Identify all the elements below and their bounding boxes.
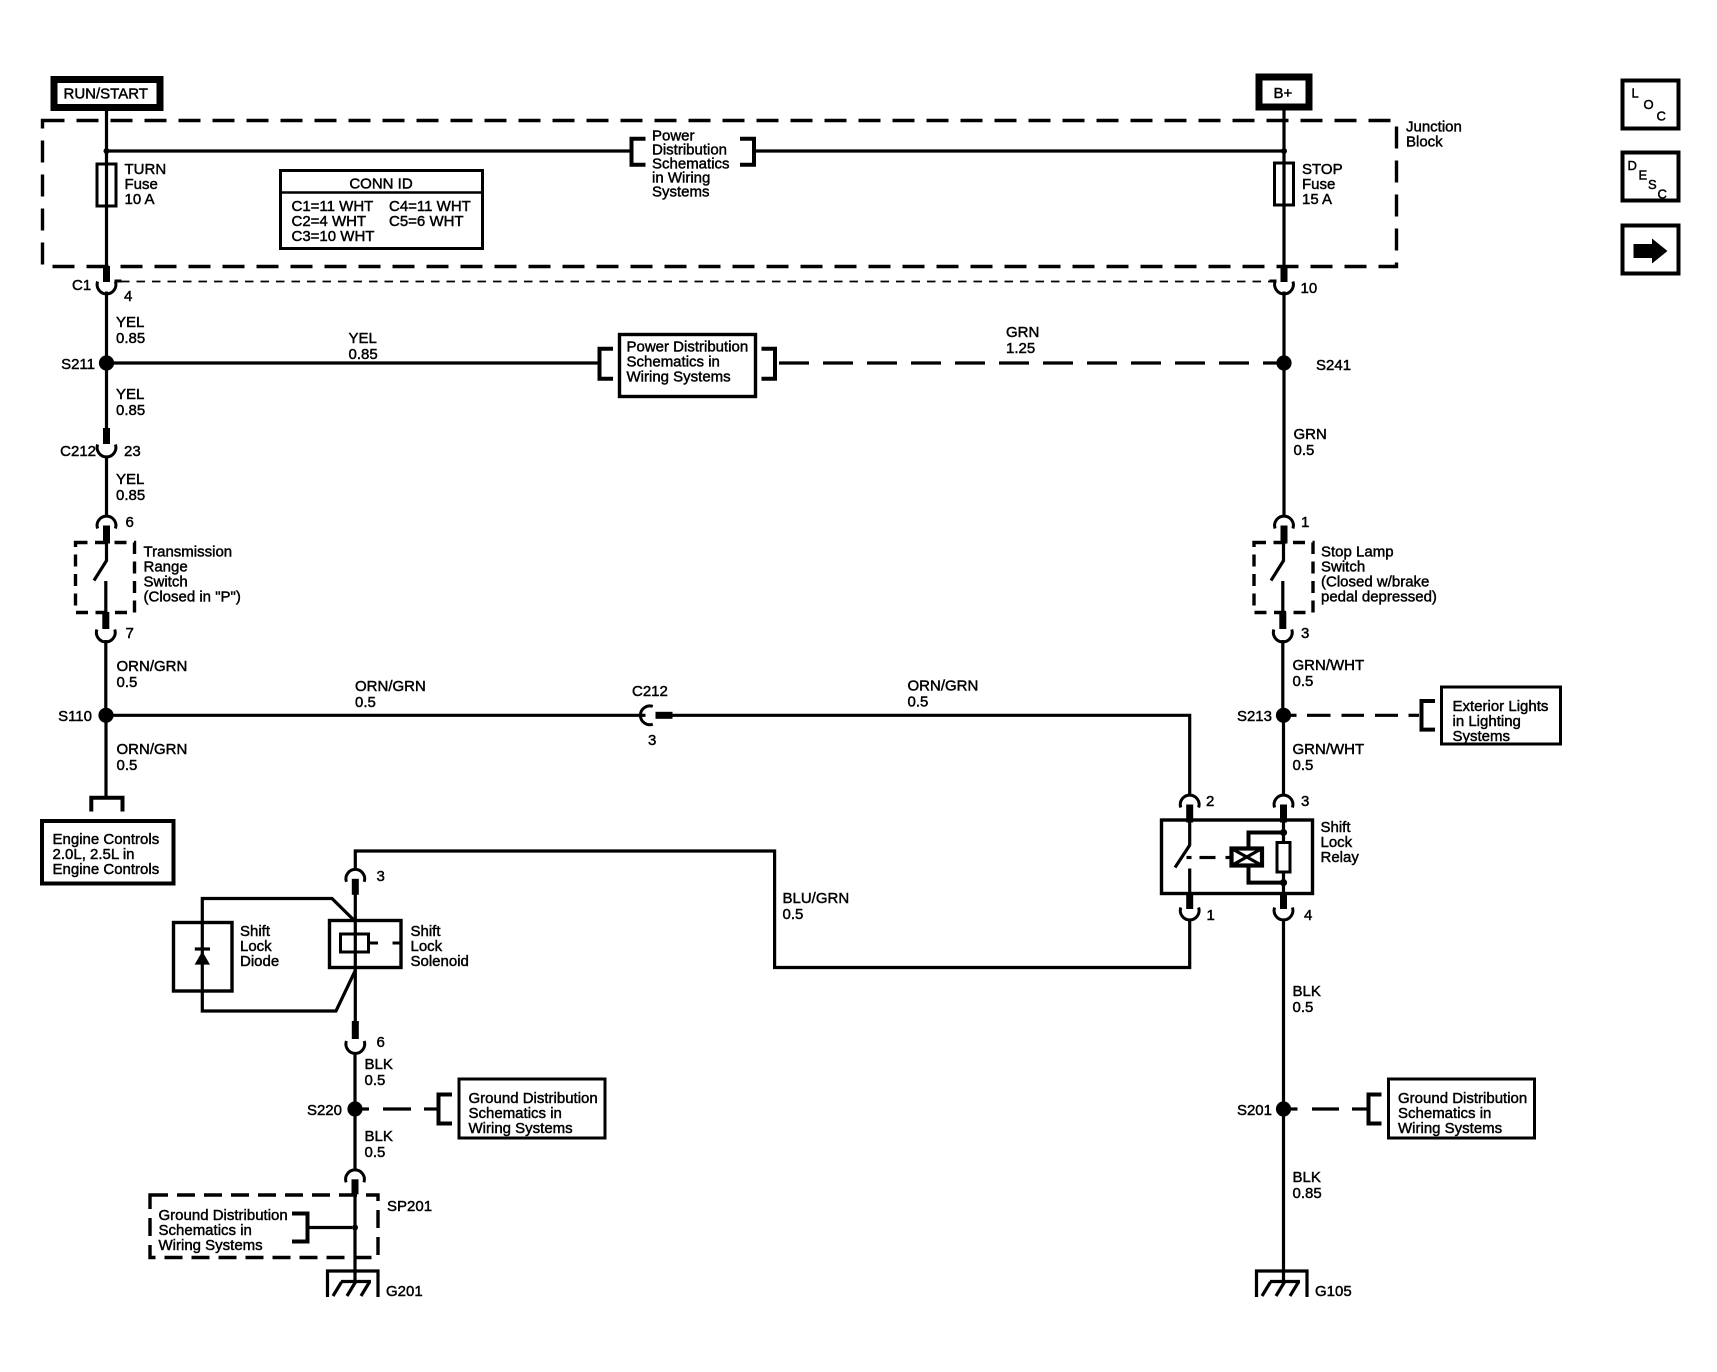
shift lock solenoid coil <box>341 934 402 952</box>
svg-text:4: 4 <box>1304 907 1312 924</box>
referenced box: Ground Distribution Schematics in Wiring Systems (left) <box>459 1079 605 1138</box>
dashed link: S213 to exterior lights bracket <box>1290 714 1420 717</box>
svg-text:6: 6 <box>377 1034 385 1051</box>
svg-text:BLK: BLK <box>1293 983 1321 1000</box>
svg-text:3: 3 <box>377 868 385 885</box>
relay coil (box with X) <box>1232 849 1263 866</box>
wire GRN dashed: bracket to S241 <box>779 361 1284 364</box>
connector C212 pin 3 (horizontal) <box>632 683 673 749</box>
svg-text:Systems: Systems <box>652 184 710 201</box>
svg-text:C: C <box>1658 187 1667 202</box>
splice node S241 <box>1276 355 1351 374</box>
svg-text:E: E <box>1639 168 1648 183</box>
label BLU/GRN 0.5 <box>783 890 850 923</box>
node: bus tap right <box>1281 148 1287 154</box>
svg-text:Wiring Systems: Wiring Systems <box>1398 1120 1502 1137</box>
CONN ID table <box>281 171 483 249</box>
svg-text:0.5: 0.5 <box>783 906 804 923</box>
svg-text:Block: Block <box>1406 134 1443 151</box>
label YEL 0.85 (below S211) <box>116 386 145 419</box>
connector 2 (relay top left) <box>1180 793 1214 823</box>
splice label: Ground Distribution Schematics in Wiring Systems (SP201) <box>159 1207 288 1254</box>
svg-text:YEL: YEL <box>116 471 144 488</box>
label YEL 0.85 (mid wire) <box>349 330 378 363</box>
svg-text:B+: B+ <box>1274 85 1293 102</box>
svg-text:(Closed in "P"): (Closed in "P") <box>144 589 241 606</box>
svg-text:Engine Controls: Engine Controls <box>53 861 160 878</box>
wire: SP201 to ground G201 <box>353 1194 356 1283</box>
svg-text:0.5: 0.5 <box>1293 673 1314 690</box>
fuse STOP label <box>1302 161 1343 208</box>
svg-text:GRN: GRN <box>1006 324 1039 341</box>
connector 3 (stop lamp switch bottom) <box>1273 612 1309 642</box>
svg-text:BLK: BLK <box>365 1128 393 1145</box>
svg-text:23: 23 <box>124 443 141 460</box>
dashed link: S220 to ground distribution bracket <box>361 1107 437 1110</box>
relay coil bottom lead <box>1249 866 1284 883</box>
shift lock diode loop wire top <box>202 899 355 1012</box>
off-page bracket (exterior lights) <box>1422 701 1436 730</box>
svg-text:0.85: 0.85 <box>116 402 145 419</box>
label BLK 0.5 (below S220) <box>365 1128 393 1161</box>
svg-text:0.85: 0.85 <box>116 487 145 504</box>
stop lamp switch label <box>1321 544 1437 606</box>
wire ORN/GRN: S110 to C212 cup <box>106 714 646 717</box>
svg-text:pedal depressed): pedal depressed) <box>1321 589 1437 606</box>
svg-text:S201: S201 <box>1237 1102 1272 1119</box>
wire BLK: S201 to ground G105 <box>1282 1109 1285 1283</box>
splice node S110 <box>58 708 114 725</box>
svg-text:Systems: Systems <box>1453 728 1511 745</box>
junction block dashed outline <box>43 121 1397 267</box>
wire: B+ down through STOP fuse to connector 10 <box>1282 106 1285 268</box>
off-page bracket (ground distribution left) <box>439 1095 453 1124</box>
svg-text:6: 6 <box>126 514 134 531</box>
svg-text:0.5: 0.5 <box>1293 999 1314 1016</box>
svg-text:G201: G201 <box>386 1283 423 1300</box>
svg-text:1.25: 1.25 <box>1006 340 1035 357</box>
wire ORN/GRN: C212 to relay pin 2 <box>673 715 1190 795</box>
label YEL 0.85 (third) <box>116 471 145 504</box>
label BLK 0.85 <box>1293 1169 1322 1202</box>
svg-text:2: 2 <box>1206 793 1214 810</box>
svg-text:Diode: Diode <box>240 953 279 970</box>
shift lock relay label <box>1321 819 1360 866</box>
svg-text:S110: S110 <box>58 708 92 725</box>
node: coil/resistor top <box>1280 829 1287 836</box>
svg-text:BLU/GRN: BLU/GRN <box>783 890 850 907</box>
label GRN 1.25 <box>1006 324 1039 357</box>
svg-text:1: 1 <box>1301 514 1309 531</box>
wire BLU/GRN: relay pin1 to shift lock solenoid <box>355 851 1189 968</box>
wire GRN: S241 to stop lamp switch pin 1 <box>1282 363 1285 516</box>
legend box LOC <box>1623 81 1679 129</box>
svg-text:0.5: 0.5 <box>1293 757 1314 774</box>
connector 1 (relay bottom left) <box>1180 892 1215 924</box>
connector 6 (TRS top) <box>97 514 134 544</box>
wire GRN/WHT: stop lamp switch to S213 <box>1281 640 1284 715</box>
svg-text:Wiring Systems: Wiring Systems <box>627 369 731 386</box>
relay switch contacts <box>1175 821 1190 893</box>
dashed link: S201 to ground distribution bracket <box>1289 1107 1367 1110</box>
connector 6 (solenoid bottom) <box>346 1021 385 1053</box>
svg-text:C1: C1 <box>72 277 91 294</box>
transmission range switch dashed box <box>76 543 135 613</box>
junction block label <box>1406 119 1462 151</box>
off-page bracket (ground distribution right) <box>1369 1095 1382 1124</box>
svg-text:0.5: 0.5 <box>1294 442 1315 459</box>
connector 4 (relay bottom right) <box>1274 892 1312 924</box>
svg-text:10: 10 <box>1301 280 1318 297</box>
wire ORN/GRN: TRS to S110 <box>104 640 107 715</box>
SP201 bracket link <box>292 1212 358 1244</box>
connector line C1 (thin dashed) <box>121 281 1271 283</box>
relay resistor <box>1277 843 1290 873</box>
label BLK 0.5 (above S220) <box>365 1056 393 1089</box>
ground G105 <box>1257 1271 1352 1300</box>
label GRN 0.5 <box>1294 426 1327 459</box>
svg-text:CONN ID: CONN ID <box>349 176 413 193</box>
wire YEL: C212 to TRS pin 6 <box>105 456 108 516</box>
wire BLK: solenoid to connector 6 <box>354 967 357 1022</box>
connector 3 (relay top right) <box>1274 793 1309 823</box>
off-page bracket right (power distribution top) <box>740 139 754 165</box>
shift lock diode symbol <box>195 949 210 965</box>
wire BLK: relay pin4 to S201 <box>1282 920 1285 1109</box>
label YEL 0.85 (upper) <box>116 314 145 347</box>
wire BLK: connector 6 to S220 <box>353 1052 356 1109</box>
legend box DESC <box>1623 153 1679 202</box>
svg-text:Solenoid: Solenoid <box>411 953 469 970</box>
svg-text:0.5: 0.5 <box>117 757 138 774</box>
wire: top feed bus right segment <box>754 149 1284 152</box>
svg-text:7: 7 <box>126 625 134 642</box>
connector 7 (TRS bottom) <box>96 612 133 642</box>
referenced box: Ground Distribution Schematics in Wiring Systems (right) <box>1389 1079 1535 1138</box>
svg-text:C212: C212 <box>632 683 668 700</box>
svg-text:1: 1 <box>1207 907 1215 924</box>
shift lock solenoid label <box>411 923 469 970</box>
stop lamp switch dashed box <box>1254 543 1313 613</box>
power source tab B+ <box>1259 77 1309 107</box>
connector 1 (stop lamp switch top) <box>1275 514 1310 544</box>
wire YEL: S211 to C212 <box>105 363 108 430</box>
svg-text:S: S <box>1648 177 1657 192</box>
svg-text:0.5: 0.5 <box>365 1144 386 1161</box>
connector (above SP201) <box>346 1170 365 1194</box>
connector 3 (solenoid top) <box>346 868 385 895</box>
svg-text:RUN/START: RUN/START <box>64 86 148 103</box>
svg-text:YEL: YEL <box>349 330 377 347</box>
svg-text:10 A: 10 A <box>125 191 155 208</box>
wire: top feed bus left segment <box>107 149 631 152</box>
svg-text:YEL: YEL <box>116 314 144 331</box>
svg-text:S211: S211 <box>61 356 95 373</box>
relay coil top lead <box>1249 833 1284 849</box>
svg-text:SP201: SP201 <box>387 1198 432 1215</box>
svg-text:GRN/WHT: GRN/WHT <box>1293 657 1365 674</box>
wire: RUN/START down through TURN fuse to connector C1 <box>105 111 108 268</box>
svg-text:ORN/GRN: ORN/GRN <box>355 678 426 695</box>
power source tab RUN/START <box>54 80 160 108</box>
wire ORN/GRN: S110 down to engine controls <box>104 715 107 797</box>
svg-text:GRN: GRN <box>1294 426 1327 443</box>
fuse TURN 10A <box>97 164 116 206</box>
label BLK 0.5 (right) <box>1293 983 1321 1016</box>
ground G201 <box>328 1271 423 1300</box>
label ORN/GRN 0.5 (mid right) <box>908 678 979 711</box>
node: coil/resistor bottom <box>1280 879 1287 886</box>
svg-text:Wiring Systems: Wiring Systems <box>469 1120 573 1137</box>
connector C212 pin 23 <box>60 428 141 460</box>
fuse STOP 15A <box>1275 163 1294 205</box>
svg-text:Relay: Relay <box>1321 849 1360 866</box>
wire YEL: S211 to off-page bracket <box>107 361 599 364</box>
referenced box: Exterior Lights in Lighting Systems <box>1442 687 1561 745</box>
wire: solenoid pin3 into solenoid <box>354 894 357 967</box>
transmission range switch contacts <box>94 543 107 613</box>
svg-text:S213: S213 <box>1237 708 1272 725</box>
svg-text:ORN/GRN: ORN/GRN <box>117 741 188 758</box>
shift lock solenoid box <box>330 921 402 968</box>
svg-text:0.5: 0.5 <box>355 694 376 711</box>
svg-text:3: 3 <box>1301 793 1309 810</box>
relay coil dashed actuator link <box>1187 856 1232 859</box>
svg-text:0.85: 0.85 <box>116 330 145 347</box>
svg-text:S220: S220 <box>307 1102 342 1119</box>
svg-text:3: 3 <box>1301 625 1309 642</box>
svg-text:C: C <box>1657 109 1666 124</box>
svg-text:ORN/GRN: ORN/GRN <box>117 658 188 675</box>
svg-text:15 A: 15 A <box>1302 191 1332 208</box>
label ORN/GRN 0.5 (below S110) <box>117 741 188 774</box>
referenced box: Engine Controls 2.0L 2.5L in Engine Controls <box>42 821 174 884</box>
svg-text:BLK: BLK <box>1293 1169 1321 1186</box>
off-page bracket right (S211 power distribution) <box>762 349 776 379</box>
component entry bracket (engine controls) <box>91 798 122 812</box>
off-page label: Power Distribution Schematics in Wiring Systems (top) <box>652 128 730 201</box>
wire GRN/WHT: S213 to relay pin 3 <box>1282 715 1285 795</box>
stop lamp switch contacts <box>1271 543 1284 613</box>
svg-text:O: O <box>1644 97 1654 112</box>
svg-text:3: 3 <box>648 732 656 749</box>
fuse TURN label <box>125 161 167 208</box>
svg-text:0.85: 0.85 <box>1293 1185 1322 1202</box>
svg-text:C212: C212 <box>60 443 96 460</box>
svg-text:0.5: 0.5 <box>365 1072 386 1089</box>
transmission range switch label <box>144 544 241 606</box>
label ORN/GRN 0.5 (above S110) <box>117 658 188 691</box>
svg-text:C3=10 WHT: C3=10 WHT <box>292 228 375 245</box>
svg-text:G105: G105 <box>1315 1283 1352 1300</box>
svg-text:ORN/GRN: ORN/GRN <box>908 678 979 695</box>
connector 10 (right) <box>1270 266 1318 297</box>
svg-text:BLK: BLK <box>365 1056 393 1073</box>
svg-text:D: D <box>1628 158 1637 173</box>
svg-text:L: L <box>1632 86 1639 101</box>
splice node S211 <box>61 355 114 373</box>
legend box arrow <box>1623 226 1679 274</box>
svg-text:Wiring Systems: Wiring Systems <box>159 1237 263 1254</box>
splice node S213 <box>1237 708 1291 725</box>
referenced box: Power Distribution Schematics in Wiring Systems <box>620 335 756 397</box>
label ORN/GRN 0.5 (mid left) <box>355 678 426 711</box>
splice node S220 <box>307 1101 363 1119</box>
shift lock diode box <box>174 923 233 992</box>
wire GRN: connector 10 to S241 <box>1282 292 1285 364</box>
node: bus tap left <box>104 148 110 154</box>
shift lock relay box <box>1162 820 1313 894</box>
svg-text:C5=6 WHT: C5=6 WHT <box>389 213 464 230</box>
wire YEL: C1 to S211 <box>105 292 108 364</box>
svg-text:0.5: 0.5 <box>117 674 138 691</box>
svg-text:S241: S241 <box>1316 357 1351 374</box>
connector C1 pin 4 <box>72 266 132 305</box>
svg-text:0.5: 0.5 <box>908 694 929 711</box>
svg-text:4: 4 <box>124 288 132 305</box>
wire BLK: S220 to SP201 <box>353 1109 356 1170</box>
off-page bracket left (S211 power distribution) <box>600 349 614 379</box>
label GRN/WHT 0.5 (below S213) <box>1293 741 1365 774</box>
svg-text:YEL: YEL <box>116 386 144 403</box>
label GRN/WHT 0.5 (above S213) <box>1293 657 1365 690</box>
shift lock diode label <box>240 923 279 970</box>
svg-text:GRN/WHT: GRN/WHT <box>1293 741 1365 758</box>
SP201 dashed box <box>150 1195 378 1258</box>
wire: relay pin3 through resistor to pin4 <box>1282 820 1285 893</box>
off-page bracket left (power distribution top) <box>632 139 646 165</box>
svg-text:0.85: 0.85 <box>349 346 378 363</box>
splice node S201 <box>1237 1101 1291 1119</box>
